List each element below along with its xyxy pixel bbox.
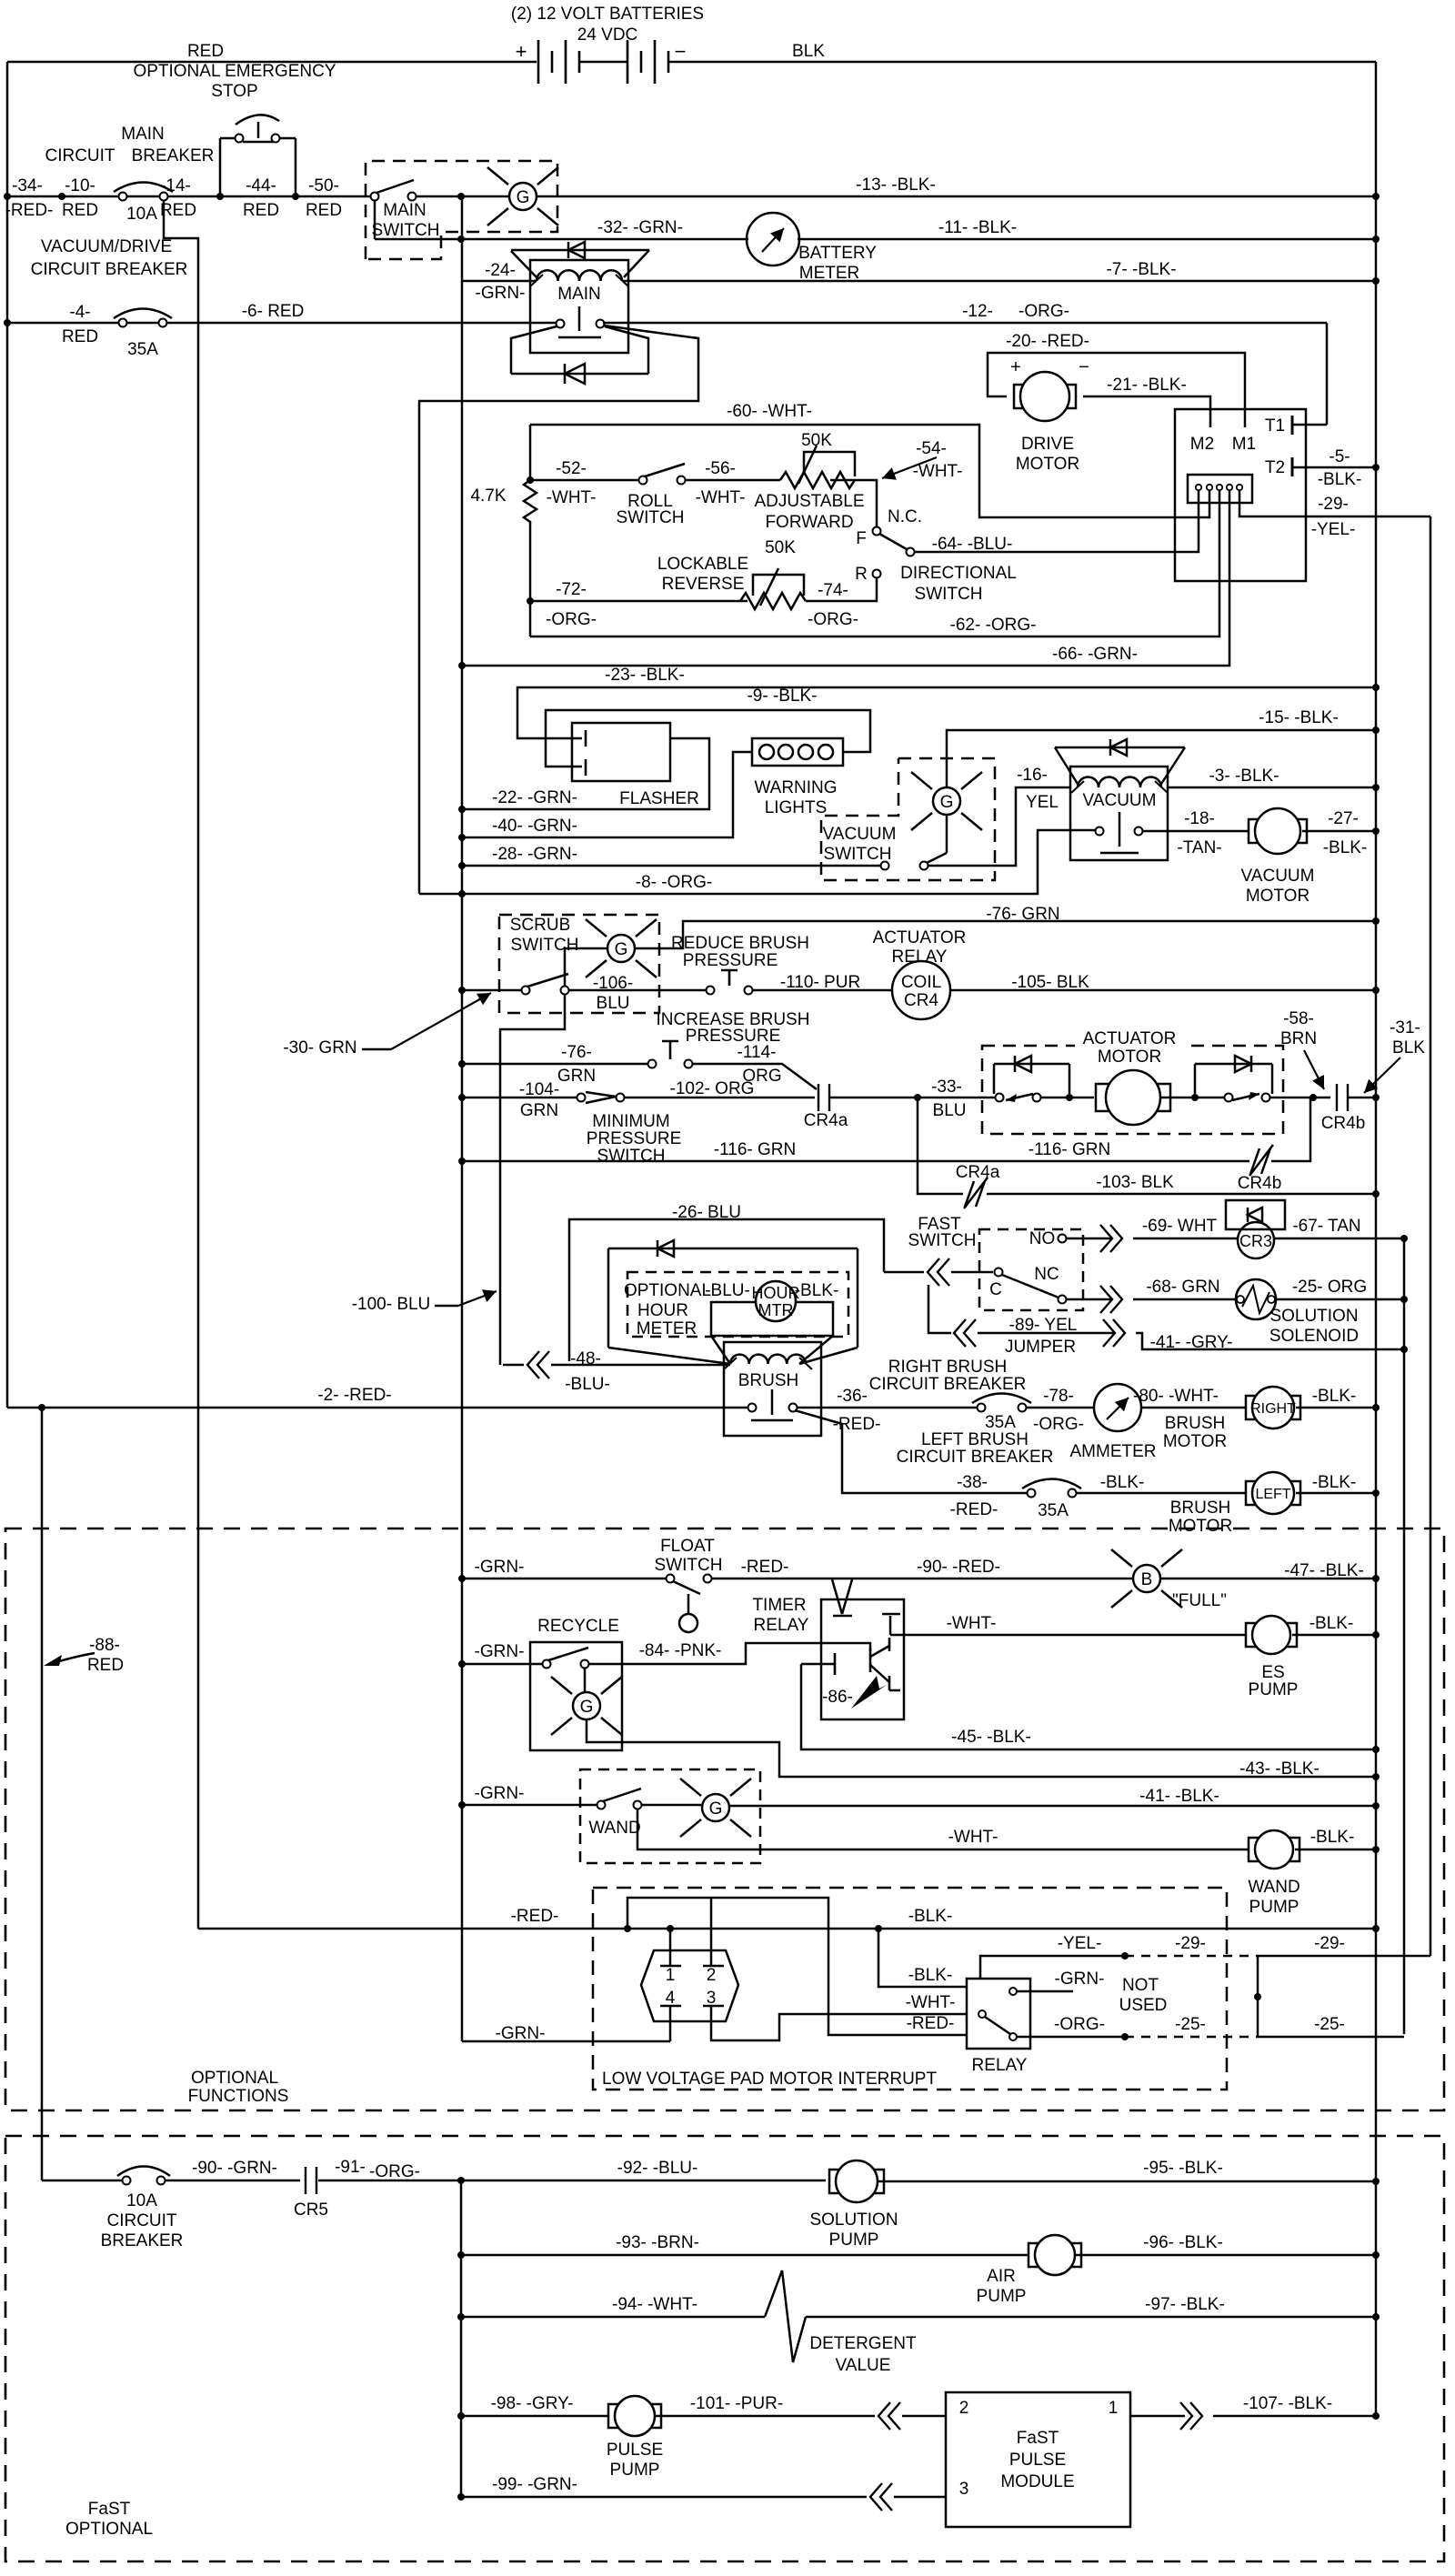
svg-text:-110- PUR: -110- PUR bbox=[780, 973, 860, 992]
svg-text:CIRCUIT BREAKER: CIRCUIT BREAKER bbox=[869, 1375, 1027, 1394]
svg-text:HOUR: HOUR bbox=[637, 1301, 688, 1320]
svg-text:CIRCUIT: CIRCUIT bbox=[45, 146, 115, 165]
wire hour meter diagonals to coil bbox=[711, 1336, 730, 1364]
svg-text:G: G bbox=[615, 940, 628, 959]
motor LEFT BRUSH MOTOR bbox=[1246, 1472, 1300, 1514]
svg-text:-GRN-: -GRN- bbox=[496, 2024, 546, 2043]
switch MINIMUM PRESSURE SWITCH bbox=[577, 1094, 586, 1102]
svg-text:PUMP: PUMP bbox=[829, 2230, 879, 2250]
svg-text:DETERGENT: DETERGENT bbox=[809, 2334, 917, 2353]
svg-text:PUMP: PUMP bbox=[610, 2461, 660, 2480]
svg-text:GRN: GRN bbox=[557, 1067, 596, 1086]
svg-text:-103- BLK: -103- BLK bbox=[1096, 1173, 1174, 1192]
wire -RED- -BLK- pad row bbox=[198, 1928, 1376, 1930]
wire -12- ORG bbox=[603, 322, 1327, 325]
wire -116- GRN bbox=[462, 1160, 1249, 1163]
svg-text:-86-: -86- bbox=[822, 1688, 853, 1707]
svg-text:-80- -WHT-: -80- -WHT- bbox=[1133, 1387, 1219, 1406]
relay RELAY box bbox=[967, 1979, 1030, 2049]
indicator lamp B FULL bbox=[1111, 1549, 1182, 1608]
svg-text:-95- -BLK-: -95- -BLK- bbox=[1143, 2159, 1223, 2178]
svg-text:NO: NO bbox=[1029, 1229, 1056, 1248]
svg-text:RIGHT BRUSH: RIGHT BRUSH bbox=[888, 1358, 1008, 1377]
wire -29- YEL from pin5 bbox=[1239, 503, 1430, 516]
wire accessory vertical bus x508 bbox=[461, 196, 464, 2041]
wire -26- BLU bbox=[569, 1219, 884, 1361]
svg-text:RECYCLE: RECYCLE bbox=[537, 1617, 619, 1636]
svg-text:1: 1 bbox=[666, 1966, 676, 1985]
svg-text:PRESSURE: PRESSURE bbox=[683, 951, 778, 970]
svg-text:PRESSURE: PRESSURE bbox=[587, 1129, 682, 1148]
wire -RED- -90- -RED- float to B lamp bbox=[711, 1578, 1133, 1580]
svg-text:-15- -BLK-: -15- -BLK- bbox=[1259, 708, 1339, 727]
svg-text:-32- -GRN-: -32- -GRN- bbox=[597, 218, 683, 237]
motor ES PUMP bbox=[1246, 1616, 1297, 1654]
svg-text:REDUCE BRUSH: REDUCE BRUSH bbox=[671, 934, 809, 953]
indicator lamp G (main) bbox=[487, 167, 558, 226]
svg-text:SWITCH: SWITCH bbox=[824, 845, 892, 864]
indicator lamp G (wand) bbox=[641, 1804, 701, 1807]
svg-text:OPTIONAL: OPTIONAL bbox=[191, 2069, 278, 2088]
svg-text:35A: 35A bbox=[127, 340, 158, 359]
svg-text:RIGHT: RIGHT bbox=[1250, 1401, 1296, 1417]
svg-text:MOTOR: MOTOR bbox=[1169, 1517, 1232, 1536]
svg-text:-WHT-: -WHT- bbox=[547, 488, 597, 507]
wire vertical link -29- to -25- bbox=[1257, 1956, 1259, 2037]
svg-text:-91-: -91- bbox=[335, 2158, 366, 2177]
svg-text:10A: 10A bbox=[126, 205, 157, 224]
wire estop left leg bbox=[219, 138, 222, 196]
wire -7- BLK from MAIN coil to right bus bbox=[622, 280, 1376, 283]
actuator motor dashed enclosure bbox=[982, 1046, 1283, 1134]
switch ROLL SWITCH bbox=[639, 476, 647, 485]
svg-text:-11- -BLK-: -11- -BLK- bbox=[938, 218, 1017, 237]
svg-text:SWITCH: SWITCH bbox=[372, 221, 440, 240]
svg-text:-BLK-: -BLK- bbox=[1312, 1387, 1357, 1406]
svg-text:-6- RED: -6- RED bbox=[242, 302, 305, 321]
wire NO row -69- WHT bbox=[1066, 1238, 1111, 1240]
svg-text:-90- -RED-: -90- -RED- bbox=[917, 1558, 1000, 1577]
svg-text:CR4a: CR4a bbox=[956, 1163, 1000, 1182]
svg-text:SWITCH: SWITCH bbox=[617, 508, 685, 527]
svg-text:-18-: -18- bbox=[1184, 809, 1215, 828]
svg-text:+: + bbox=[516, 40, 527, 63]
svg-text:-99- -GRN-: -99- -GRN- bbox=[492, 2475, 577, 2494]
diode MAIN lower loop bbox=[511, 326, 557, 374]
circuit breaker MAIN 10A bbox=[114, 183, 173, 193]
wire -40- GRN bbox=[462, 752, 752, 837]
svg-text:RED: RED bbox=[62, 327, 98, 346]
relay contact CR5 bbox=[306, 2167, 316, 2194]
wire -104- GRN bbox=[462, 1097, 577, 1099]
circuit breaker RIGHT BRUSH 35A bbox=[972, 1394, 1031, 1404]
wire FaST vertical bus x507 bbox=[460, 2180, 463, 2497]
enclosure FaST OPTIONAL dashed box bbox=[5, 2136, 1444, 2561]
wire -76- GRN top row bbox=[635, 921, 1376, 948]
svg-text:VACUUM: VACUUM bbox=[823, 825, 897, 844]
svg-text:R: R bbox=[855, 565, 868, 584]
svg-text:-GRN-: -GRN- bbox=[476, 284, 526, 303]
svg-text:SOLUTION: SOLUTION bbox=[1269, 1307, 1358, 1326]
svg-text:-43- -BLK-: -43- -BLK- bbox=[1239, 1759, 1320, 1779]
svg-text:-ORG-: -ORG- bbox=[1054, 2015, 1105, 2034]
svg-text:FUNCTIONS: FUNCTIONS bbox=[188, 2087, 289, 2106]
svg-text:SWITCH: SWITCH bbox=[908, 1231, 977, 1250]
svg-text:-TAN-: -TAN- bbox=[1177, 838, 1221, 857]
svg-text:OPTIONAL: OPTIONAL bbox=[624, 1281, 711, 1300]
svg-text:-34-: -34- bbox=[12, 176, 43, 195]
svg-text:PUMP: PUMP bbox=[977, 2287, 1027, 2306]
wire -BLK- into relay bbox=[878, 1929, 967, 1987]
contactor VACUUM box bbox=[1070, 767, 1168, 860]
svg-text:10A: 10A bbox=[126, 2191, 157, 2210]
svg-text:-48-: -48- bbox=[570, 1349, 601, 1368]
svg-text:GRN: GRN bbox=[520, 1101, 558, 1120]
svg-text:-RED-: -RED- bbox=[950, 1500, 998, 1519]
switch VACUUM SWITCH dashed enclosure bbox=[821, 758, 995, 880]
wire -21- BLK bbox=[1083, 396, 1210, 427]
wire to CR4b bbox=[1269, 1097, 1330, 1099]
wire -62- ORG bbox=[530, 503, 1219, 636]
svg-text:-BLU-: -BLU- bbox=[705, 1281, 750, 1300]
wire -91- ORG bbox=[318, 2180, 461, 2182]
potentiometer ADJUSTABLE FORWARD 50K bbox=[780, 472, 855, 488]
svg-text:PUMP: PUMP bbox=[1249, 1680, 1299, 1699]
wire -97- BLK bbox=[806, 2316, 1376, 2319]
pushbutton REDUCE BRUSH PRESSURE bbox=[707, 987, 715, 995]
wire -99- GRN bbox=[461, 2496, 867, 2499]
wire MAIN right contact to vacuum feed bbox=[419, 326, 698, 894]
hour meter outer box with diode bbox=[607, 1248, 610, 1348]
svg-text:-23- -BLK-: -23- -BLK- bbox=[605, 666, 685, 685]
svg-text:-BLK-: -BLK- bbox=[1310, 1828, 1355, 1847]
wire -52- WHT bbox=[530, 479, 639, 482]
lights WARNING LIGHTS bbox=[752, 738, 843, 766]
svg-text:CIRCUIT: CIRCUIT bbox=[106, 2211, 176, 2230]
svg-text:BREAKER: BREAKER bbox=[101, 2231, 184, 2250]
right vertical bus BLK bbox=[1375, 62, 1378, 2416]
wire -15- BLK bbox=[947, 730, 1376, 787]
svg-text:-38-: -38- bbox=[957, 1473, 988, 1492]
contactor BRUSH contacts bbox=[748, 1404, 757, 1412]
left vertical bus RED bbox=[6, 62, 9, 1408]
svg-text:-107- -BLK-: -107- -BLK- bbox=[1243, 2394, 1332, 2413]
contactor VACUUM contacts bbox=[1096, 827, 1104, 836]
svg-text:MOTOR: MOTOR bbox=[1163, 1432, 1227, 1451]
svg-text:−: − bbox=[1079, 357, 1089, 377]
motor VACUUM MOTOR bbox=[1249, 808, 1307, 854]
wire left brush -BLK- bbox=[1076, 1492, 1253, 1495]
svg-text:-WHT-: -WHT- bbox=[696, 488, 746, 507]
svg-text:-41- -BLK-: -41- -BLK- bbox=[1139, 1787, 1219, 1806]
svg-text:-ORG-: -ORG- bbox=[1033, 1415, 1084, 1434]
wire -28- GRN bbox=[462, 865, 881, 867]
svg-text:TIMER: TIMER bbox=[752, 1596, 806, 1615]
svg-text:PULSE: PULSE bbox=[607, 2441, 663, 2460]
svg-text:-BLK-: -BLK- bbox=[1323, 838, 1368, 857]
svg-text:G: G bbox=[709, 1799, 723, 1819]
svg-text:-BLK-: -BLK- bbox=[908, 1907, 953, 1926]
svg-text:PUMP: PUMP bbox=[1249, 1898, 1299, 1917]
circuit breaker VACUUM/DRIVE 35A bbox=[114, 309, 172, 319]
svg-text:-116- GRN: -116- GRN bbox=[1029, 1140, 1110, 1159]
svg-text:BLK: BLK bbox=[1392, 1038, 1425, 1057]
flasher FLASHER box bbox=[572, 723, 670, 781]
wire -16- YEL bbox=[928, 787, 1071, 866]
svg-text:-69- WHT: -69- WHT bbox=[1142, 1217, 1218, 1236]
wire flasher to -22- GRN bbox=[462, 738, 709, 809]
circuit breaker FaST 10A bbox=[117, 2167, 170, 2177]
svg-text:FLOAT: FLOAT bbox=[660, 1537, 715, 1556]
svg-text:SOLUTION: SOLUTION bbox=[809, 2210, 898, 2230]
indicator lamp G (recycle) bbox=[584, 1668, 587, 1691]
svg-text:-44-: -44- bbox=[246, 176, 276, 195]
svg-text:-28- -GRN-: -28- -GRN- bbox=[492, 845, 577, 864]
svg-text:-116- GRN: -116- GRN bbox=[714, 1140, 796, 1159]
svg-text:-ORG-: -ORG- bbox=[808, 610, 858, 629]
relay contact CR4b bbox=[1337, 1084, 1348, 1111]
hour meter OPTIONAL HOUR METER dashed box bbox=[627, 1272, 848, 1337]
svg-text:-BLK-: -BLK- bbox=[1309, 1614, 1354, 1633]
svg-text:-25- ORG: -25- ORG bbox=[1292, 1278, 1367, 1297]
svg-text:BRUSH: BRUSH bbox=[1165, 1414, 1226, 1433]
svg-text:N.C.: N.C. bbox=[888, 507, 922, 526]
wire left brush feed bbox=[795, 1410, 1028, 1493]
svg-text:-BLK-: -BLK- bbox=[1318, 470, 1362, 489]
svg-text:SWITCH: SWITCH bbox=[597, 1147, 666, 1166]
svg-text:USED: USED bbox=[1119, 1996, 1168, 2015]
wire to actuator motor bbox=[1040, 1097, 1094, 1099]
wire left brush motor to bus -BLK- bbox=[1296, 1492, 1376, 1495]
svg-text:-20- -RED-: -20- -RED- bbox=[1006, 332, 1089, 351]
wire -94- WHT with break symbol bbox=[461, 2316, 765, 2319]
pin 1 bbox=[660, 1965, 681, 1968]
svg-text:-10-: -10- bbox=[65, 176, 95, 195]
svg-text:MODULE: MODULE bbox=[1000, 2472, 1074, 2491]
svg-text:-66- -GRN-: -66- -GRN- bbox=[1052, 645, 1138, 664]
svg-text:-BLU-: -BLU- bbox=[565, 1375, 610, 1394]
wire -80- WHT bbox=[1141, 1407, 1253, 1409]
solenoid SOLUTION SOLENOID bbox=[1236, 1279, 1276, 1319]
svg-text:-96- -BLK-: -96- -BLK- bbox=[1143, 2233, 1223, 2252]
wire -116- up to CR4b row bbox=[1271, 1098, 1310, 1161]
svg-text:-58-: -58- bbox=[1283, 1009, 1314, 1028]
motor DRIVE MOTOR bbox=[1014, 372, 1076, 421]
svg-text:ACTUATOR: ACTUATOR bbox=[1083, 1029, 1177, 1048]
svg-text:-92- -BLU-: -92- -BLU- bbox=[617, 2159, 698, 2178]
svg-text:G: G bbox=[940, 793, 954, 812]
svg-text:-9- -BLK-: -9- -BLK- bbox=[747, 687, 817, 706]
meter AMMETER bbox=[1094, 1384, 1141, 1431]
svg-text:-89- YEL: -89- YEL bbox=[1009, 1316, 1078, 1335]
svg-text:M1: M1 bbox=[1232, 435, 1256, 454]
svg-text:24 VDC: 24 VDC bbox=[577, 25, 638, 45]
wire -23- BLK bbox=[517, 687, 1376, 738]
contactor MAIN box bbox=[530, 260, 628, 353]
svg-text:-24-: -24- bbox=[485, 261, 516, 280]
wire -9- BLK bbox=[546, 710, 870, 767]
svg-text:-105- BLK: -105- BLK bbox=[1011, 973, 1089, 992]
svg-text:FLASHER: FLASHER bbox=[619, 789, 699, 808]
wire -47- BLK bbox=[1160, 1578, 1376, 1580]
svg-text:BLU: BLU bbox=[597, 994, 630, 1013]
svg-text:-GRN-: -GRN- bbox=[1055, 1970, 1105, 1989]
svg-text:-100- BLU: -100- BLU bbox=[352, 1295, 431, 1314]
svg-text:"FULL": "FULL" bbox=[1172, 1591, 1227, 1610]
wire -101- PUR bbox=[655, 2415, 875, 2418]
svg-text:-76- GRN: -76- GRN bbox=[986, 905, 1059, 924]
diode left limit loop bbox=[993, 1064, 996, 1094]
wire -72- ORG bbox=[530, 600, 748, 603]
relay contact CR4b NC (slashed) bbox=[1249, 1145, 1273, 1176]
relay coil ACTUATOR RELAY COIL CR4 bbox=[892, 961, 950, 1019]
svg-text:-25-: -25- bbox=[1314, 2015, 1345, 2034]
svg-text:-45- -BLK-: -45- -BLK- bbox=[951, 1728, 1031, 1747]
svg-text:VACUUM/DRIVE: VACUUM/DRIVE bbox=[41, 237, 172, 256]
svg-text:SOLENOID: SOLENOID bbox=[1269, 1327, 1359, 1346]
switch DIRECTIONAL SWITCH F contact bbox=[873, 527, 881, 536]
switch MAIN SWITCH pole 1 bbox=[371, 193, 379, 201]
svg-text:RED: RED bbox=[187, 42, 224, 61]
connector hexagon 4-pin bbox=[641, 1950, 738, 2021]
svg-text:VACUUM: VACUUM bbox=[1083, 791, 1157, 810]
svg-text:RED: RED bbox=[87, 1656, 124, 1675]
svg-text:-BLK-: -BLK- bbox=[1312, 1473, 1357, 1492]
enclosure OPTIONAL FUNCTIONS dashed box bbox=[5, 1529, 1444, 2110]
wire pad row jog to relay RED bbox=[627, 1898, 967, 2035]
svg-text:-101- -PUR-: -101- -PUR- bbox=[690, 2394, 783, 2413]
indicator lamp G (scrub) bbox=[586, 919, 657, 977]
svg-text:FORWARD: FORWARD bbox=[765, 513, 853, 532]
svg-text:-YEL-: -YEL- bbox=[1311, 520, 1356, 539]
switch recycle contacts bbox=[543, 1660, 551, 1669]
timer relay output bar bbox=[882, 1613, 900, 1615]
svg-text:-62- -ORG-: -62- -ORG- bbox=[950, 616, 1037, 635]
motor SOLUTION PUMP bbox=[829, 2160, 884, 2202]
svg-text:STOP: STOP bbox=[211, 82, 257, 101]
main switch dashed enclosure bbox=[366, 161, 557, 259]
wire -76- GRN increase row bbox=[462, 1063, 648, 1066]
svg-text:WAND: WAND bbox=[588, 1819, 640, 1838]
svg-text:MOTOR: MOTOR bbox=[1016, 455, 1079, 474]
svg-text:-GRN-: -GRN- bbox=[475, 1784, 525, 1803]
svg-text:RED: RED bbox=[62, 201, 98, 220]
relay contact CR4a bbox=[818, 1084, 829, 1111]
wire -2- RED bbox=[7, 1407, 748, 1409]
wire scrub to G lamp bbox=[565, 948, 607, 987]
enclosure LOW VOLTAGE PAD MOTOR INTERRUPT dashed box bbox=[593, 1888, 1227, 2090]
wire -43- BLK from recycle lamp bbox=[587, 1720, 1376, 1777]
svg-text:RED: RED bbox=[306, 201, 342, 220]
svg-text:2: 2 bbox=[959, 2399, 969, 2418]
svg-text:LEFT: LEFT bbox=[1255, 1487, 1290, 1502]
svg-text:-12-: -12- bbox=[962, 302, 993, 321]
wire module pin1 to -107- BLK bbox=[1130, 2415, 1185, 2418]
wire -106- BLU bbox=[568, 989, 707, 992]
wire -25- to x1544 bus bbox=[1258, 2036, 1404, 2039]
wire scrub common down to brush circuit bbox=[500, 994, 565, 1365]
svg-text:OPTIONAL: OPTIONAL bbox=[65, 2520, 153, 2539]
wire 10A breaker to pad-interrupt feed (jog) bbox=[164, 200, 198, 1929]
svg-text:SWITCH: SWITCH bbox=[915, 585, 983, 604]
svg-text:FaST: FaST bbox=[88, 2500, 131, 2519]
svg-text:DRIVE: DRIVE bbox=[1021, 435, 1074, 454]
svg-text:-ORG-: -ORG- bbox=[1018, 302, 1069, 321]
svg-text:-26- BLU: -26- BLU bbox=[672, 1203, 741, 1222]
wire ES pump -BLK- bbox=[1292, 1634, 1376, 1637]
relay contacts bbox=[1009, 1988, 1017, 1995]
svg-text:-2- -RED-: -2- -RED- bbox=[317, 1386, 391, 1405]
svg-text:T1: T1 bbox=[1265, 416, 1285, 436]
svg-text:METER: METER bbox=[637, 1319, 697, 1338]
svg-text:YEL: YEL bbox=[1026, 793, 1059, 812]
contactor VACUUM coil bbox=[1078, 777, 1161, 787]
svg-text:MAIN: MAIN bbox=[383, 201, 426, 220]
wire -84- PNK bbox=[588, 1643, 870, 1664]
svg-text:-RED-: -RED- bbox=[907, 2014, 955, 2033]
svg-text:-90- -GRN-: -90- -GRN- bbox=[192, 2159, 277, 2178]
wire -ORG- from relay bbox=[1017, 2036, 1125, 2039]
svg-text:-56-: -56- bbox=[705, 459, 736, 478]
svg-text:-98- -GRY-: -98- -GRY- bbox=[491, 2394, 574, 2413]
svg-text:-50-: -50- bbox=[308, 176, 339, 195]
svg-text:-54-: -54- bbox=[916, 439, 947, 458]
wire float row -GRN- bbox=[462, 1578, 667, 1580]
hour meter inner box + HOUR MTR bbox=[711, 1302, 833, 1336]
wire -56- WHT bbox=[685, 479, 780, 482]
connector chevron fast C row bbox=[884, 1271, 924, 1274]
wire wand row -GRN- bbox=[462, 1804, 597, 1807]
svg-text:CR5: CR5 bbox=[294, 2200, 328, 2220]
wire -YEL- from relay bbox=[980, 1956, 1125, 1979]
wire -24- GRN bbox=[462, 280, 537, 283]
meter BATTERY METER bbox=[747, 213, 799, 266]
svg-text:-94- -WHT-: -94- -WHT- bbox=[612, 2295, 697, 2314]
svg-text:G: G bbox=[517, 188, 530, 207]
svg-text:-52-: -52- bbox=[556, 459, 587, 478]
svg-text:CR4b: CR4b bbox=[1238, 1174, 1282, 1193]
svg-text:-5-: -5- bbox=[1329, 447, 1350, 466]
svg-text:COIL: COIL bbox=[901, 973, 941, 992]
wire -3- BLK bbox=[1168, 787, 1376, 789]
motor PULSE PUMP bbox=[608, 2396, 661, 2436]
svg-text:NOT: NOT bbox=[1122, 1976, 1159, 1995]
indicator lamp G (vacuum) bbox=[946, 816, 948, 853]
wire -33- BLU bbox=[829, 1097, 982, 1099]
wire -110- PUR bbox=[752, 989, 892, 992]
svg-text:AMMETER: AMMETER bbox=[1070, 1442, 1157, 1461]
svg-text:35A: 35A bbox=[1038, 1501, 1069, 1520]
wire -74- ORG bbox=[806, 577, 877, 601]
svg-text:-68- GRN: -68- GRN bbox=[1146, 1278, 1219, 1297]
wire between battery cells bbox=[579, 61, 627, 64]
svg-text:4: 4 bbox=[666, 1989, 676, 2008]
wire -36- ORG right brush row bbox=[798, 1407, 978, 1409]
wire wand to wand pump -WHT- bbox=[637, 1809, 1254, 1849]
wire -67- TAN bbox=[1274, 1238, 1404, 1240]
diode MAIN coil suppression (top) bbox=[511, 251, 537, 277]
contactor MAIN contacts bbox=[557, 320, 565, 328]
wire -66- GRN bbox=[462, 503, 1229, 666]
svg-text:WAND: WAND bbox=[1248, 1878, 1299, 1897]
switch SCRUB SWITCH dashed enclosure bbox=[499, 915, 659, 1013]
svg-text:-BLK-: -BLK- bbox=[908, 1966, 953, 1985]
wire -41- BLK bbox=[730, 1805, 1376, 1808]
svg-text:-WHT-: -WHT- bbox=[948, 1828, 998, 1847]
wire -102- ORG bbox=[624, 1097, 815, 1099]
wire -60- WHT top loop bbox=[530, 425, 1209, 517]
svg-text:CIRCUIT BREAKER: CIRCUIT BREAKER bbox=[897, 1448, 1054, 1467]
